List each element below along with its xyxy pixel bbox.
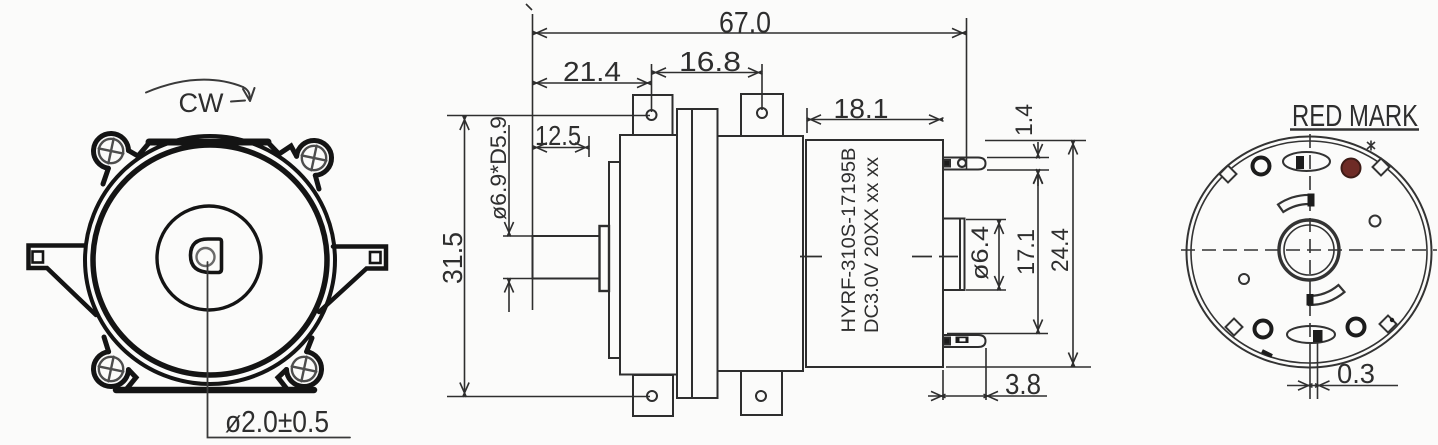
- CW rotation arrow: [146, 80, 243, 93]
- rim tick bottom-left: [1262, 351, 1272, 356]
- dim 0.3 leader lines: [1310, 343, 1318, 399]
- top flange bar: [149, 139, 268, 146]
- leader line to dimension: [208, 262, 351, 438]
- screw bottom-left: [99, 357, 124, 382]
- svg-text:18.1: 18.1: [834, 93, 889, 124]
- D-cut shaft boss: [191, 239, 222, 273]
- svg-text:17.1: 17.1: [1013, 229, 1040, 275]
- dim ø6.4: [966, 220, 1006, 291]
- ear top-left: [94, 133, 149, 184]
- terminal top: [943, 158, 986, 170]
- screw bottom-right: [292, 357, 317, 382]
- svg-text:0.3: 0.3: [1337, 358, 1375, 389]
- shaft: [533, 236, 600, 279]
- ear bottom-right: [278, 338, 321, 389]
- svg-text:ø6.9*D5.9: ø6.9*D5.9: [486, 116, 511, 220]
- rear rim inner circle: [1191, 141, 1427, 363]
- star mark top-right: [1367, 141, 1375, 151]
- dim ø6.9*D5.9: [503, 125, 533, 312]
- terminal top tab (section): [944, 160, 951, 167]
- bottom flange bar: [116, 387, 314, 394]
- terminal bottom tab (section): [944, 338, 951, 345]
- right tab: [319, 247, 386, 313]
- dim 1.4: [987, 142, 1049, 186]
- bold vent O bottom-left: [1255, 321, 1272, 338]
- small hole right: [1370, 216, 1381, 227]
- bottom oval tick: [1313, 330, 1323, 342]
- dot inside bottom-right diamond: [1390, 318, 1394, 322]
- inner face circle: [157, 206, 261, 310]
- top oval slot: [1283, 152, 1330, 171]
- shaft bushing: [600, 226, 610, 291]
- ear top-right hole: [757, 108, 767, 118]
- svg-text:HYRF-310S-17195B: HYRF-310S-17195B: [838, 148, 860, 333]
- bold vent O bottom-right: [1348, 319, 1365, 336]
- centerline dashes: [800, 256, 958, 258]
- ear bottom-left: [633, 375, 673, 416]
- upper arc slot: [1278, 195, 1311, 212]
- svg-text:1.4: 1.4: [1011, 104, 1038, 136]
- svg-text:67.0: 67.0: [719, 7, 771, 40]
- left tab: [29, 246, 97, 316]
- bottom oval slot: [1287, 326, 1335, 343]
- screw top-left: [99, 139, 124, 164]
- dim 67.0: [526, 4, 967, 310]
- bold vent O top-left: [1253, 158, 1270, 175]
- boss inner line: [959, 219, 961, 291]
- svg-text:DC3.0V 20XX xx xx: DC3.0V 20XX xx xx: [861, 157, 883, 333]
- dim 18.1: [807, 108, 944, 133]
- ear bottom-right hole: [756, 391, 766, 401]
- svg-text:ø6.4: ø6.4: [967, 226, 994, 280]
- upper arc slot tick: [1308, 194, 1315, 207]
- flange outer circle: [85, 136, 335, 384]
- svg-text:CW: CW: [179, 88, 224, 118]
- red mark dot: [1342, 159, 1361, 178]
- ear top-left hole: [647, 110, 657, 120]
- motor front housing: [718, 136, 804, 371]
- dashed centerline horizontal: [1181, 249, 1437, 251]
- dim 31.5: [447, 116, 650, 398]
- dashed centerline vertical: [1309, 134, 1311, 345]
- center bearing hole outer: [1279, 220, 1339, 280]
- rim notch diamond bottom-right: [1380, 316, 1397, 333]
- ear top-right: [741, 94, 783, 136]
- center bearing hole inner: [1284, 225, 1334, 275]
- dim 24.4: [946, 140, 1091, 367]
- svg-text:24.4: 24.4: [1047, 228, 1074, 272]
- motor can: [806, 140, 943, 367]
- dim 16.8: [652, 64, 763, 110]
- terminal top hole: [958, 159, 966, 167]
- rim notch diamond bottom-left: [1226, 319, 1243, 336]
- rear bearing boss: [943, 219, 965, 291]
- screw top-right: [302, 146, 327, 171]
- ear top-right: [268, 140, 332, 189]
- terminal bottom: [943, 335, 986, 347]
- gearbox front plate: [609, 162, 620, 358]
- svg-text:3.8: 3.8: [1005, 369, 1041, 401]
- small hole left: [1239, 274, 1249, 284]
- ear bottom-left hole: [647, 391, 657, 401]
- ear bottom-left: [94, 337, 136, 389]
- svg-text:16.8: 16.8: [679, 46, 741, 77]
- svg-text:RED MARK: RED MARK: [1292, 98, 1418, 133]
- RED MARK underline: [1290, 128, 1419, 130]
- lower arc slot tick: [1307, 294, 1314, 306]
- rear rim outer circle: [1187, 137, 1432, 368]
- dim 21.4: [533, 64, 652, 112]
- svg-text:31.5: 31.5: [437, 232, 468, 284]
- gearbox case: [620, 135, 677, 375]
- mounting plate strip A: [677, 109, 692, 398]
- lower arc slot: [1309, 285, 1345, 305]
- motor body circle: [93, 145, 327, 375]
- terminal bottom slot: [956, 337, 969, 344]
- dim 17.1: [947, 170, 1048, 335]
- svg-text:ø2.0±0.5: ø2.0±0.5: [225, 404, 329, 439]
- svg-text:12.5: 12.5: [535, 120, 581, 151]
- ear bottom-right: [741, 371, 782, 415]
- rim notch diamond top-left: [1220, 166, 1237, 183]
- svg-text:21.4: 21.4: [563, 56, 621, 87]
- rim notch diamond top-right: [1373, 159, 1390, 176]
- shaft center hole: [197, 248, 215, 266]
- dim 12.5: [533, 136, 590, 157]
- dim 3.8: [928, 348, 1047, 401]
- ear top-left: [633, 95, 673, 135]
- dim 0.3 line: [1287, 385, 1398, 387]
- mounting plate strip B: [692, 109, 718, 398]
- top oval tick: [1296, 156, 1304, 169]
